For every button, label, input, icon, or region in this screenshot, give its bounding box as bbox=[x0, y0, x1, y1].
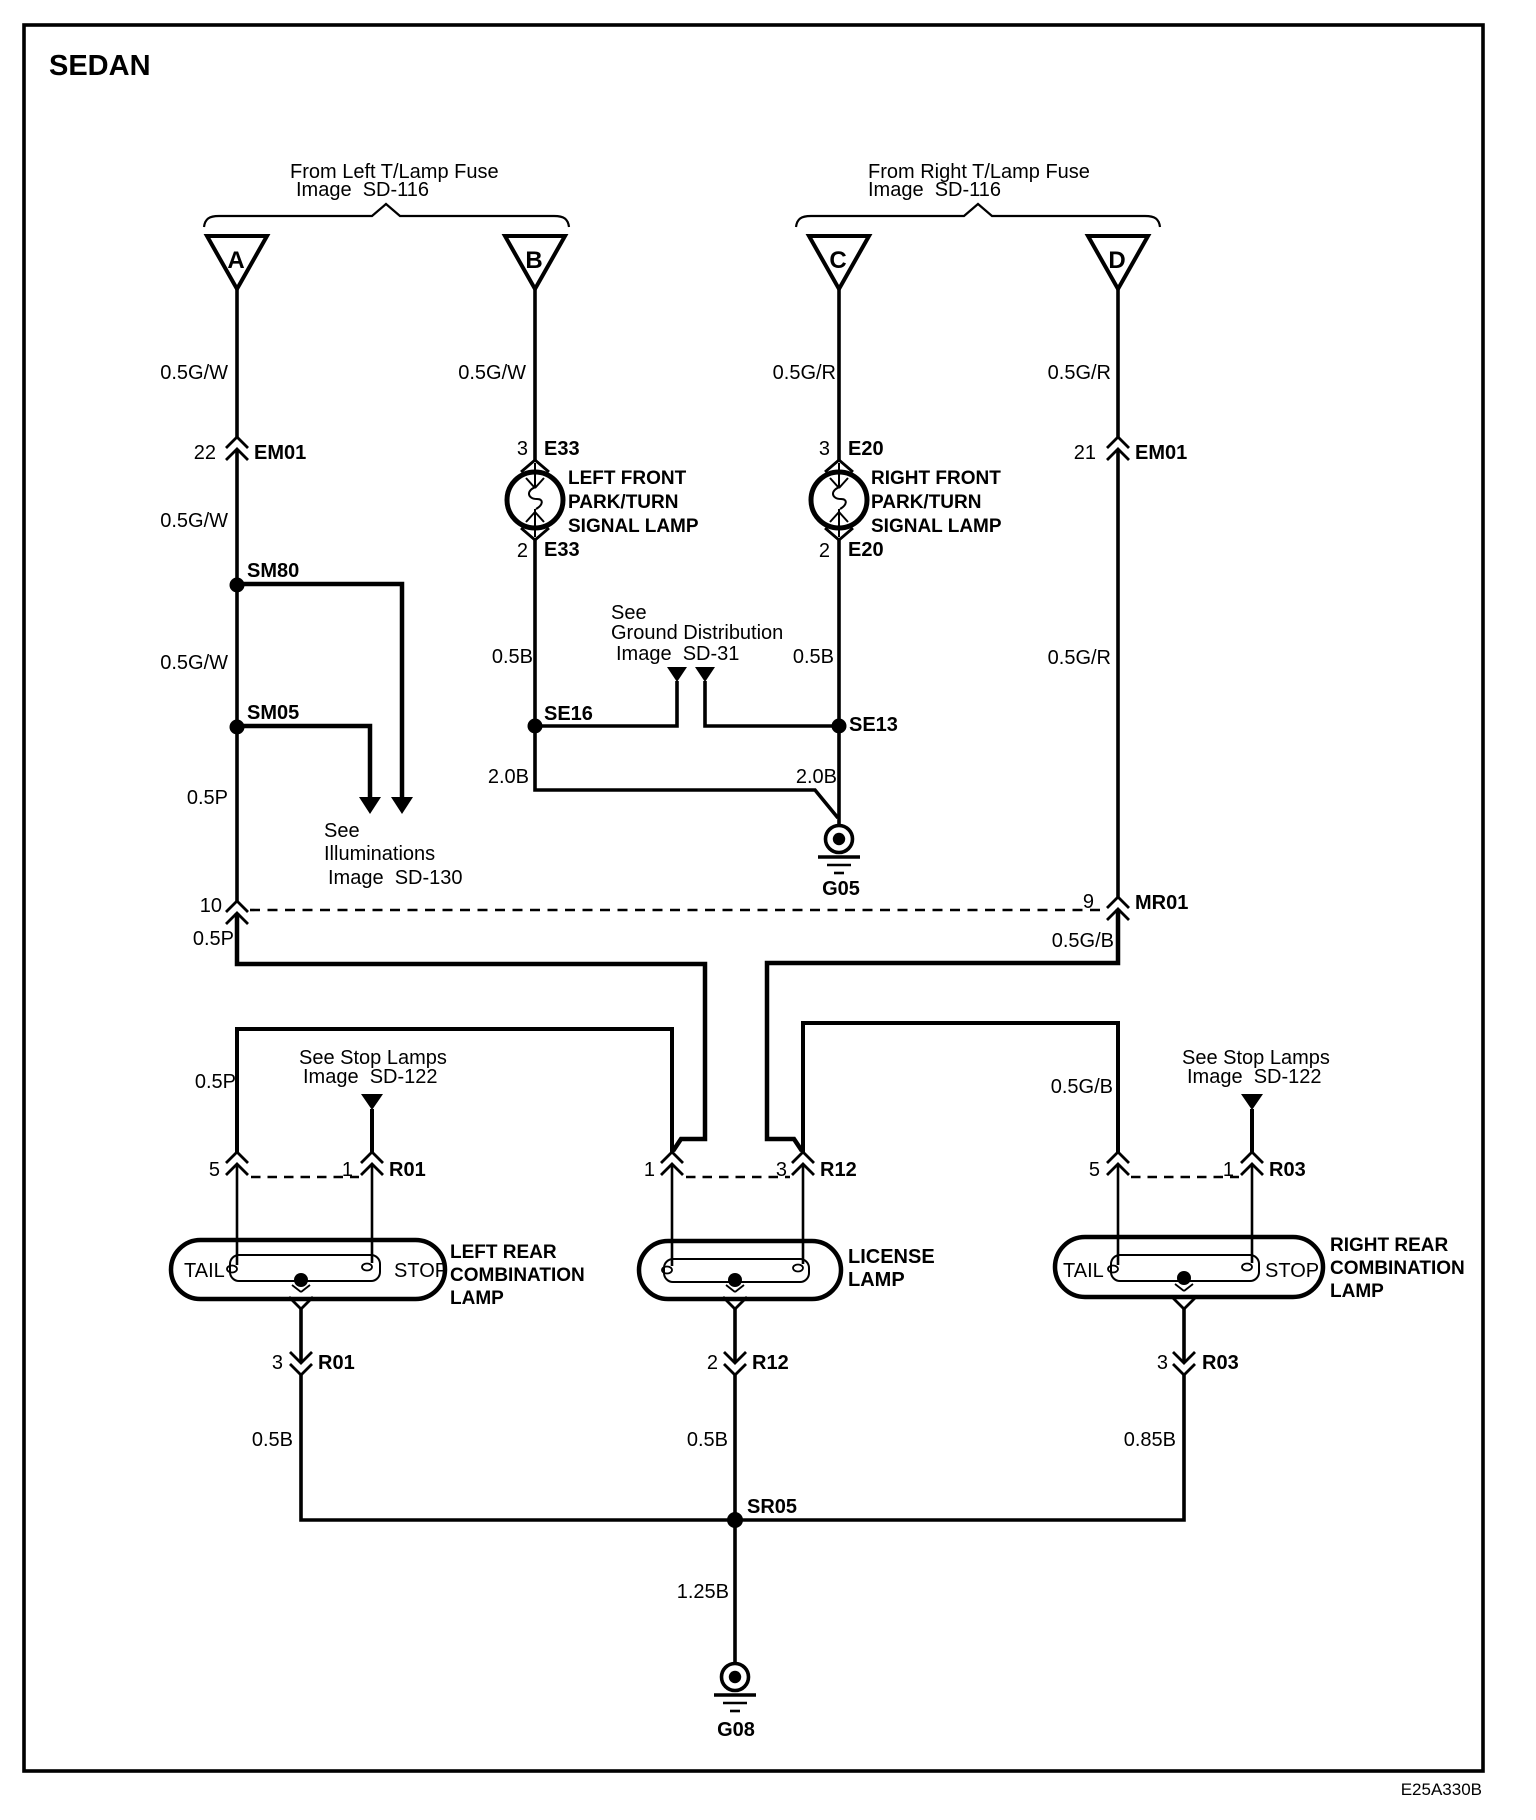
svg-text:2.0B: 2.0B bbox=[796, 766, 837, 788]
wire A to EM01 pin 22 bbox=[235, 289, 239, 437]
svg-text:See: See bbox=[324, 820, 360, 842]
svg-text:1: 1 bbox=[644, 1159, 655, 1181]
connector triangle D bbox=[1088, 236, 1148, 289]
note From Left T/Lamp Fuse Image SD-116 bbox=[290, 161, 499, 201]
svg-text:3: 3 bbox=[819, 438, 830, 460]
svg-text:2: 2 bbox=[517, 540, 528, 562]
svg-text:3: 3 bbox=[517, 438, 528, 460]
svg-text:0.5G/W: 0.5G/W bbox=[160, 652, 228, 674]
off-page arrow to illuminations (right) bbox=[391, 797, 413, 814]
svg-text:SEDAN: SEDAN bbox=[49, 50, 151, 82]
svg-text:21: 21 bbox=[1074, 442, 1096, 464]
dashed connector line R12 pins 1-3 bbox=[686, 1176, 790, 1179]
svg-text:LICENSE: LICENSE bbox=[848, 1246, 935, 1268]
wire R12 pin 1 into license lamp bbox=[671, 1164, 674, 1266]
wire tail pin into left rear lamp bbox=[236, 1164, 239, 1265]
wire MR01 pin 9 to license lamp R12 pin 3 bbox=[767, 909, 1118, 1151]
terminal hook tail (right rear) bbox=[1108, 1266, 1118, 1273]
svg-text:SM80: SM80 bbox=[247, 560, 299, 582]
svg-text:5: 5 bbox=[209, 1159, 220, 1181]
svg-text:Image SD-116: Image SD-116 bbox=[868, 179, 1001, 201]
note See Illuminations Image SD-130 bbox=[324, 820, 463, 889]
svg-text:EM01: EM01 bbox=[254, 442, 306, 464]
svg-text:0.5G/W: 0.5G/W bbox=[160, 510, 228, 532]
connector EM01 pin 21 bbox=[1074, 437, 1188, 464]
svg-text:STOP: STOP bbox=[1265, 1260, 1319, 1282]
right rear combination lamp body bbox=[1055, 1237, 1323, 1297]
node SM05 bbox=[230, 702, 300, 735]
svg-text:A: A bbox=[227, 247, 244, 274]
terminal chevron under right rear lamp bbox=[1172, 1284, 1196, 1309]
pin 2 E20 bbox=[819, 539, 884, 562]
svg-text:E25A330B: E25A330B bbox=[1401, 1780, 1482, 1799]
svg-text:SR05: SR05 bbox=[747, 1496, 797, 1518]
svg-text:1.25B: 1.25B bbox=[677, 1581, 729, 1603]
wire SE13 to ground G05 bbox=[837, 726, 841, 826]
connector MR01 pin 9 bbox=[1083, 891, 1188, 920]
connector R03 pin 3 bbox=[1157, 1352, 1239, 1375]
svg-text:0.5G/R: 0.5G/R bbox=[773, 362, 836, 384]
connector triangle C bbox=[809, 236, 869, 289]
svg-text:0.5G/R: 0.5G/R bbox=[1048, 362, 1111, 384]
svg-text:LAMP: LAMP bbox=[1330, 1281, 1384, 1302]
svg-text:COMBINATION: COMBINATION bbox=[450, 1265, 585, 1286]
wire lamp E33 to SE16 bbox=[533, 539, 537, 726]
svg-text:SE13: SE13 bbox=[849, 714, 898, 736]
pin 2 E33 bbox=[517, 539, 580, 562]
wire lamp E20 to SE13 bbox=[837, 539, 841, 726]
wire branch R12 pin1 to left rear tail pin 5 bbox=[237, 1029, 672, 1152]
connector R01 pin 1 bbox=[342, 1152, 426, 1181]
wire C to lamp E20 pin 3 bbox=[837, 289, 841, 461]
svg-text:Image SD-116: Image SD-116 bbox=[296, 179, 429, 201]
license lamp body bbox=[639, 1241, 841, 1299]
left rear combination lamp body bbox=[171, 1240, 445, 1299]
svg-text:0.5P: 0.5P bbox=[193, 928, 234, 950]
svg-text:LAMP: LAMP bbox=[848, 1269, 905, 1291]
svg-text:See: See bbox=[611, 602, 647, 624]
svg-text:TAIL: TAIL bbox=[1063, 1260, 1104, 1282]
svg-text:0.5G/B: 0.5G/B bbox=[1051, 1076, 1113, 1098]
svg-text:R12: R12 bbox=[820, 1159, 857, 1181]
terminal hook license right bbox=[793, 1265, 803, 1272]
svg-text:0.5B: 0.5B bbox=[793, 646, 834, 668]
wire right rear lamp to R03 pin 3 bbox=[1182, 1309, 1186, 1363]
wire R03 pin 3 to SR05 bus bbox=[737, 1375, 1184, 1520]
label LICENSE LAMP bbox=[848, 1246, 935, 1291]
pin 3 E33 bbox=[517, 438, 580, 460]
wire stop pin into left rear lamp bbox=[371, 1164, 374, 1263]
wire R01 pin 3 to SR05 bus bbox=[301, 1375, 733, 1520]
svg-text:5: 5 bbox=[1089, 1159, 1100, 1181]
node common ground right rear lamp bbox=[1177, 1271, 1191, 1285]
label LEFT REAR COMBINATION LAMP bbox=[450, 1242, 585, 1309]
connector MR01 pin 10 bbox=[200, 895, 248, 924]
wire license lamp to R12 pin 2 bbox=[733, 1309, 737, 1363]
svg-text:G05: G05 bbox=[822, 878, 860, 900]
connector triangle B bbox=[505, 236, 565, 289]
wire SM80 branch to illuminations arrow bbox=[237, 584, 402, 797]
terminal hook stop (left rear) bbox=[362, 1264, 372, 1271]
svg-text:2: 2 bbox=[707, 1352, 718, 1374]
svg-text:MR01: MR01 bbox=[1135, 892, 1188, 914]
off-page arrow ground distribution (left) bbox=[667, 667, 687, 682]
terminal chevron under left rear lamp bbox=[289, 1285, 313, 1309]
svg-text:Illuminations: Illuminations bbox=[324, 843, 435, 865]
svg-text:0.5P: 0.5P bbox=[195, 1071, 236, 1093]
svg-text:R03: R03 bbox=[1269, 1159, 1306, 1181]
wire SM05 to connector 10 bbox=[235, 727, 239, 901]
svg-text:0.5B: 0.5B bbox=[252, 1429, 293, 1451]
off-page arrow to illuminations (left) bbox=[359, 797, 381, 814]
svg-text:LAMP: LAMP bbox=[450, 1288, 504, 1309]
connector R12 pin 3 bbox=[776, 1152, 857, 1181]
svg-text:3: 3 bbox=[272, 1352, 283, 1374]
svg-text:Image SD-130: Image SD-130 bbox=[328, 867, 463, 889]
ground G05 bbox=[818, 826, 860, 901]
svg-text:R01: R01 bbox=[389, 1159, 426, 1181]
wire R12 pin 2 to SR05 bbox=[733, 1375, 737, 1520]
svg-text:E20: E20 bbox=[848, 539, 884, 561]
svg-text:2: 2 bbox=[819, 540, 830, 562]
svg-text:E20: E20 bbox=[848, 438, 884, 460]
right rear lamp inner bulb frame bbox=[1111, 1255, 1259, 1281]
license lamp inner bulb frame bbox=[664, 1259, 809, 1282]
node SE16 bbox=[528, 703, 593, 734]
svg-text:22: 22 bbox=[194, 442, 216, 464]
svg-text:SIGNAL LAMP: SIGNAL LAMP bbox=[568, 516, 699, 537]
wire SE16 to ground distribution stub bbox=[535, 681, 677, 726]
svg-text:LEFT REAR: LEFT REAR bbox=[450, 1242, 557, 1263]
connector R12 pin 2 bbox=[707, 1352, 789, 1375]
wire branch R12 pin3 to right rear tail pin 5 bbox=[803, 1023, 1118, 1152]
wire D to EM01 pin 21 bbox=[1116, 289, 1120, 437]
label LEFT FRONT PARK/TURN SIGNAL LAMP bbox=[568, 468, 699, 537]
note See Ground Distribution Image SD-31 bbox=[611, 602, 783, 665]
svg-text:SIGNAL LAMP: SIGNAL LAMP bbox=[871, 516, 1002, 537]
svg-text:Image SD-31: Image SD-31 bbox=[616, 643, 739, 665]
connector R03 pin 1 bbox=[1223, 1152, 1306, 1181]
wire tail pin into right rear lamp bbox=[1117, 1164, 1120, 1265]
dashed connector line 10 to 9 bbox=[250, 909, 1105, 912]
label RIGHT FRONT PARK/TURN SIGNAL LAMP bbox=[871, 468, 1002, 537]
svg-text:E33: E33 bbox=[544, 438, 580, 460]
svg-text:0.5G/R: 0.5G/R bbox=[1048, 647, 1111, 669]
dashed connector line R01 pins 5-1 bbox=[251, 1176, 359, 1179]
wire EM01 to MR01 pin 9 bbox=[1116, 449, 1120, 897]
svg-text:Image SD-122: Image SD-122 bbox=[303, 1066, 438, 1088]
lamp U-E20 right front park/turn signal lamp bbox=[811, 460, 867, 540]
svg-text:EM01: EM01 bbox=[1135, 442, 1187, 464]
svg-text:0.5P: 0.5P bbox=[187, 787, 228, 809]
note See Stop Lamps Image SD-122 (right) bbox=[1182, 1047, 1330, 1088]
node SM80 bbox=[230, 560, 300, 593]
svg-text:RIGHT FRONT: RIGHT FRONT bbox=[871, 468, 1001, 489]
connector R01 pin 5 bbox=[209, 1152, 248, 1181]
svg-text:PARK/TURN: PARK/TURN bbox=[871, 492, 981, 513]
svg-text:RIGHT REAR: RIGHT REAR bbox=[1330, 1235, 1449, 1256]
svg-text:R12: R12 bbox=[752, 1352, 789, 1374]
svg-text:G08: G08 bbox=[717, 1719, 755, 1741]
label RIGHT REAR COMBINATION LAMP bbox=[1330, 1235, 1465, 1302]
svg-text:C: C bbox=[829, 247, 846, 274]
wire SM80 to SM05 bbox=[235, 585, 239, 727]
svg-text:PARK/TURN: PARK/TURN bbox=[568, 492, 678, 513]
svg-text:0.5B: 0.5B bbox=[687, 1429, 728, 1451]
svg-text:0.5B: 0.5B bbox=[492, 646, 533, 668]
ground G08 bbox=[714, 1664, 756, 1742]
off-page arrow from stop lamps (right) bbox=[1241, 1094, 1263, 1152]
connector R12 pin 1 bbox=[644, 1152, 683, 1181]
svg-text:B: B bbox=[525, 247, 542, 274]
terminal hook stop (right rear) bbox=[1242, 1264, 1252, 1271]
wire left rear lamp to R01 pin 3 bbox=[299, 1309, 303, 1363]
terminal hook license left bbox=[662, 1267, 672, 1274]
wire SE16 to G05 (2.0B) bbox=[535, 726, 838, 818]
wire connector 10 to license lamp R12 pin 1 bbox=[237, 913, 705, 1151]
note From Right T/Lamp Fuse Image SD-116 bbox=[868, 161, 1090, 201]
lamp U-E33 left front park/turn signal lamp bbox=[507, 460, 563, 540]
wire ground distribution stub to SE13 bbox=[705, 681, 838, 726]
svg-text:TAIL: TAIL bbox=[184, 1260, 225, 1282]
wire B to lamp E33 pin 3 bbox=[533, 289, 537, 461]
wire R12 pin 3 into license lamp bbox=[802, 1164, 805, 1264]
svg-text:0.5G/W: 0.5G/W bbox=[160, 362, 228, 384]
connector R03 pin 5 bbox=[1089, 1152, 1129, 1181]
svg-text:STOP: STOP bbox=[394, 1260, 448, 1282]
left rear lamp inner bulb frame bbox=[230, 1255, 380, 1281]
wire SR05 to ground G08 bbox=[733, 1520, 737, 1665]
node SR05 bbox=[727, 1496, 797, 1528]
wire SM05 branch to illuminations arrow bbox=[237, 726, 370, 797]
connector triangle A bbox=[207, 236, 267, 289]
svg-text:0.5G/B: 0.5G/B bbox=[1052, 930, 1114, 952]
svg-text:10: 10 bbox=[200, 895, 222, 917]
brace right fuse group bbox=[796, 204, 1160, 227]
svg-text:Ground Distribution: Ground Distribution bbox=[611, 622, 783, 644]
dashed connector line R03 pins 5-1 bbox=[1131, 1176, 1239, 1179]
connector R01 pin 3 bbox=[272, 1352, 355, 1375]
terminal chevron under license lamp bbox=[723, 1285, 747, 1309]
svg-text:2.0B: 2.0B bbox=[488, 766, 529, 788]
svg-text:COMBINATION: COMBINATION bbox=[1330, 1258, 1465, 1279]
node common ground left rear lamp bbox=[294, 1273, 308, 1287]
svg-text:SE16: SE16 bbox=[544, 703, 593, 725]
svg-text:Image SD-122: Image SD-122 bbox=[1187, 1066, 1322, 1088]
pin 3 E20 bbox=[819, 438, 884, 460]
wire stop pin into right rear lamp bbox=[1251, 1164, 1254, 1263]
wire EM01 to SM80 bbox=[235, 449, 239, 585]
svg-text:R03: R03 bbox=[1202, 1352, 1239, 1374]
svg-text:0.85B: 0.85B bbox=[1124, 1429, 1176, 1451]
svg-text:LEFT FRONT: LEFT FRONT bbox=[568, 468, 687, 489]
brace left fuse group bbox=[204, 204, 569, 227]
svg-text:9: 9 bbox=[1083, 891, 1094, 913]
note See Stop Lamps Image SD-122 (left) bbox=[299, 1047, 447, 1088]
node SE13 bbox=[832, 714, 898, 736]
connector EM01 pin 22 bbox=[194, 437, 307, 464]
svg-text:E33: E33 bbox=[544, 539, 580, 561]
svg-text:SM05: SM05 bbox=[247, 702, 299, 724]
terminal hook tail (left rear) bbox=[227, 1266, 237, 1273]
svg-text:3: 3 bbox=[1157, 1352, 1168, 1374]
node common ground license lamp bbox=[728, 1273, 742, 1287]
svg-text:R01: R01 bbox=[318, 1352, 355, 1374]
off-page arrow ground distribution (right) bbox=[695, 667, 715, 682]
svg-text:D: D bbox=[1108, 247, 1125, 274]
off-page arrow from stop lamps (left) bbox=[361, 1094, 383, 1152]
svg-text:0.5G/W: 0.5G/W bbox=[458, 362, 526, 384]
